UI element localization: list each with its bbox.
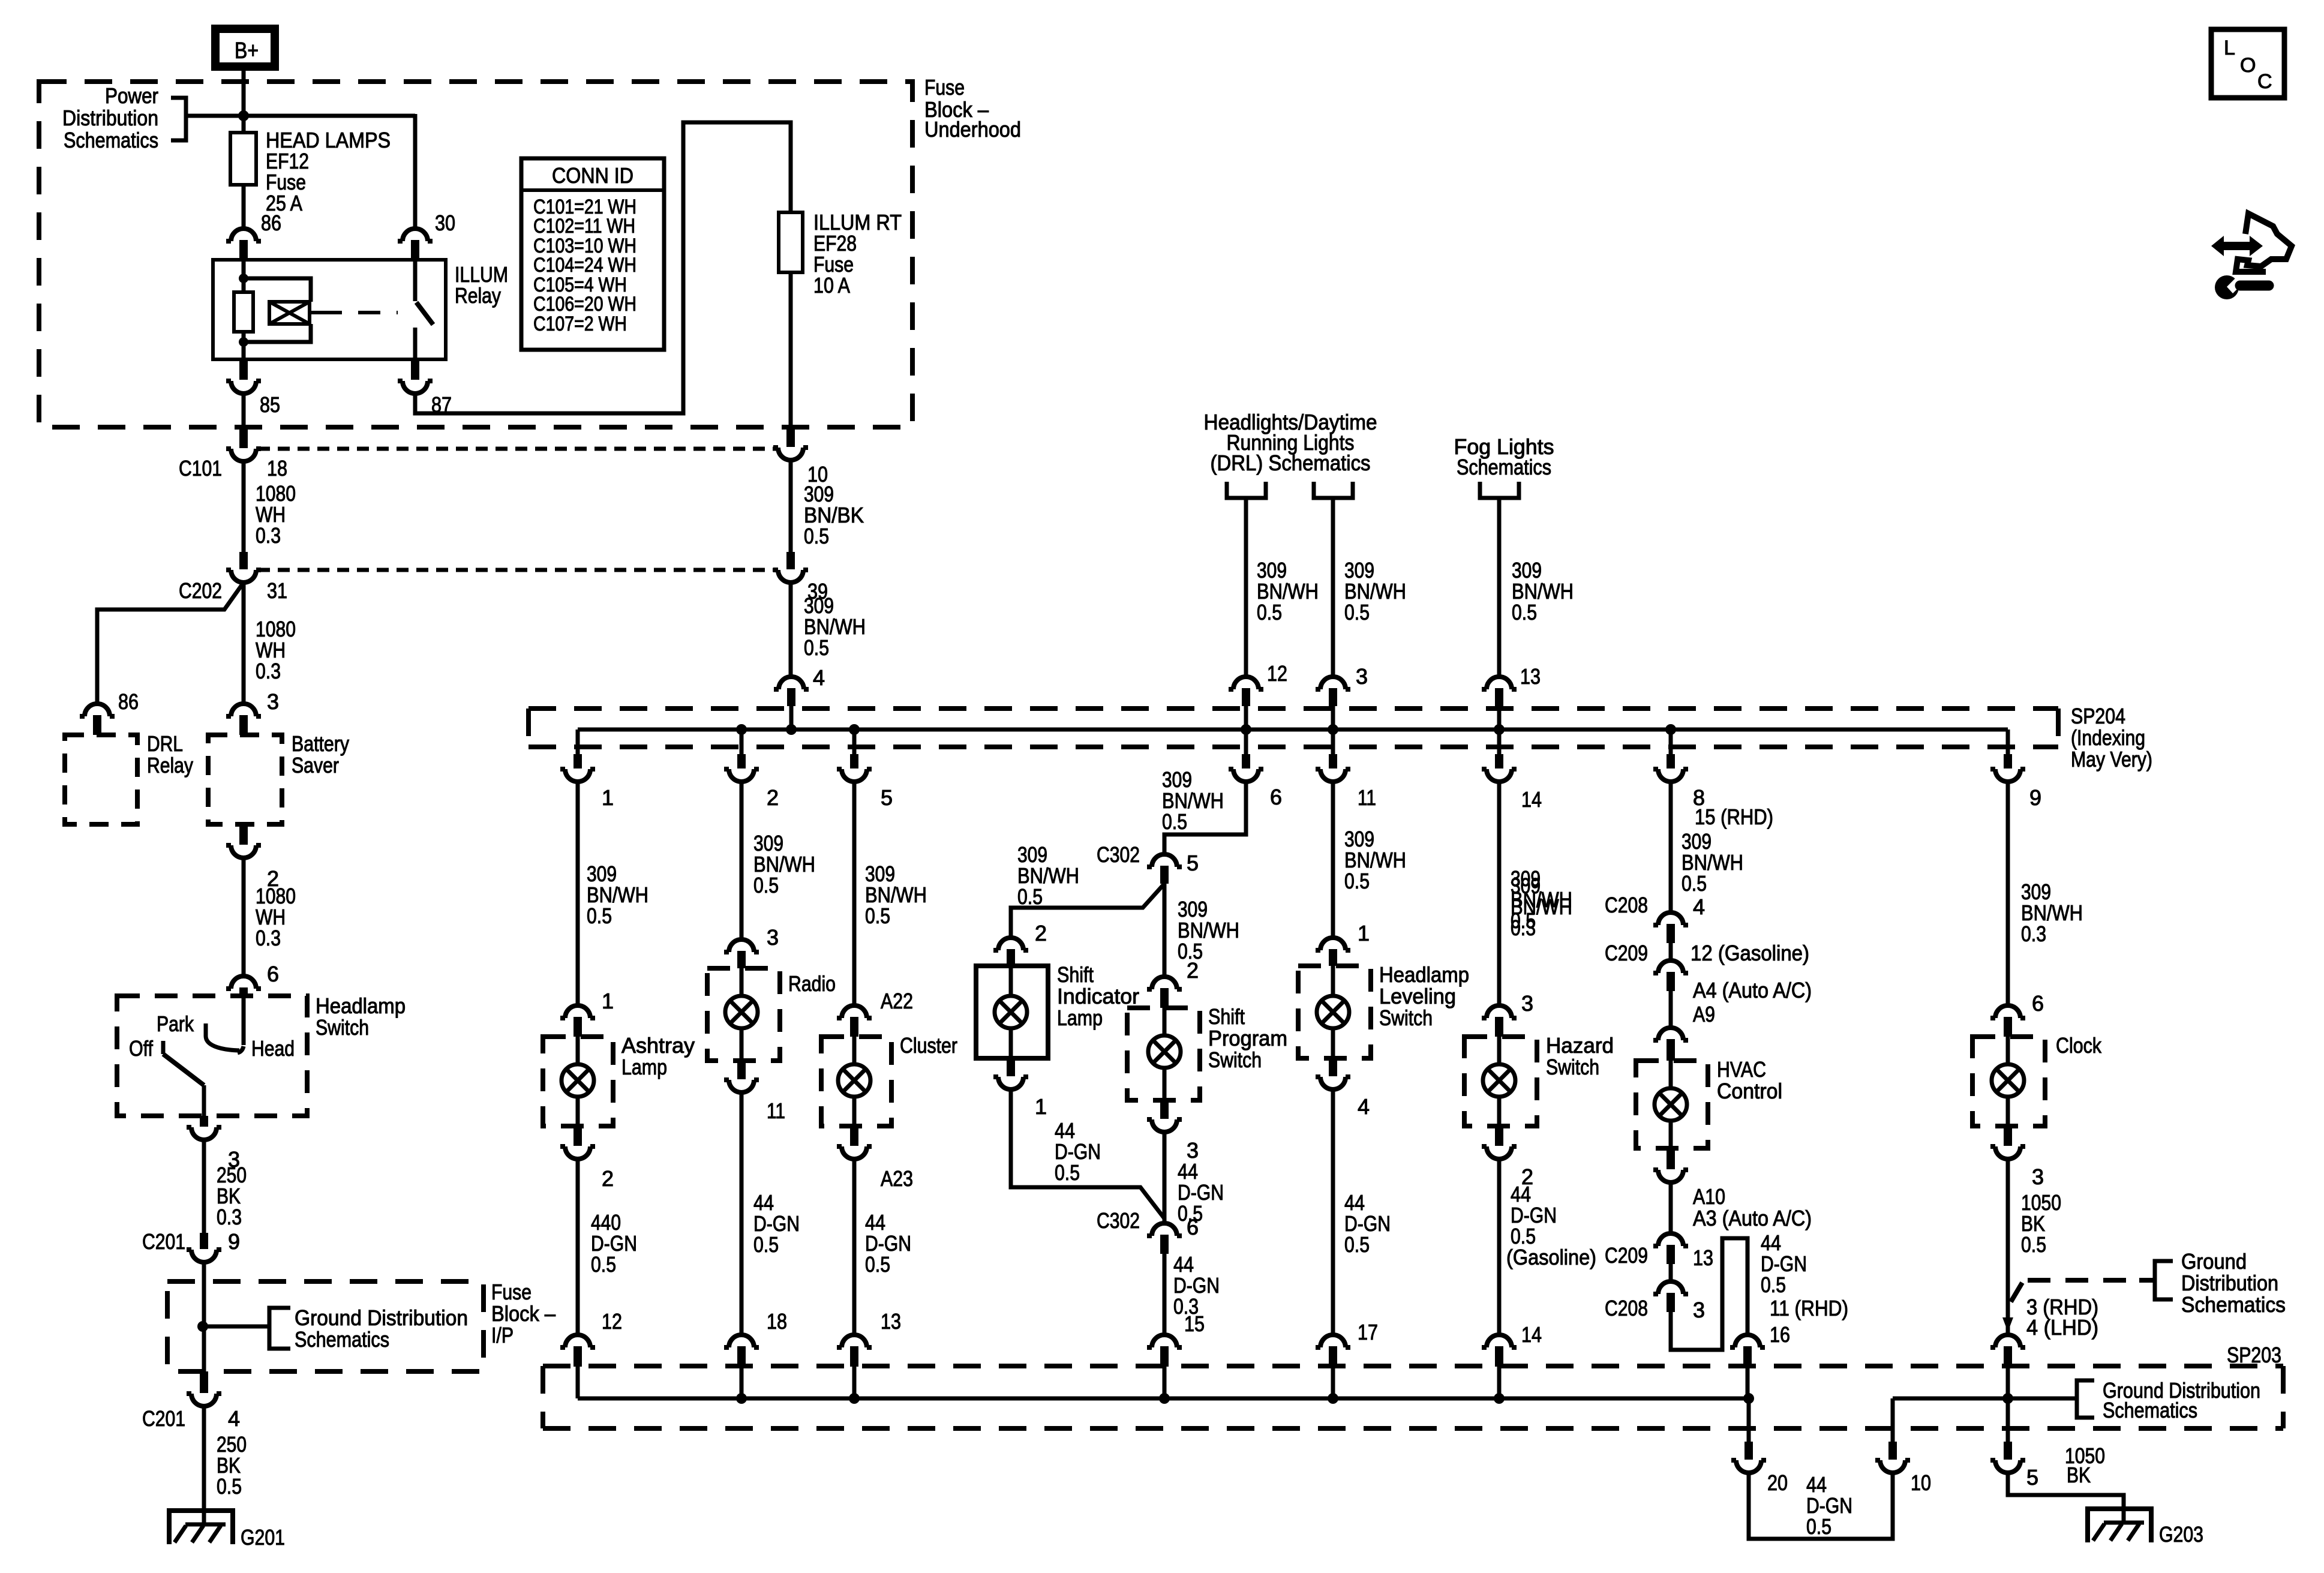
svg-text:C209: C209 (1605, 1243, 1648, 1268)
ashtray lamp pin 1 connector (560, 1005, 595, 1018)
Clock dashed box (1972, 1037, 2045, 1126)
lamp shift program switch (1163, 1008, 1167, 1035)
node SP203 junction (1494, 1393, 1505, 1404)
svg-text:Head: Head (251, 1036, 295, 1061)
svg-text:SP204: SP204 (2071, 704, 2125, 728)
B+ battery feed box (215, 29, 275, 67)
connector C302 pin 5 (1147, 854, 1182, 867)
splice feed 13 connector (1482, 677, 1517, 689)
svg-text:86: 86 (261, 211, 281, 235)
svg-text:0.5: 0.5 (1682, 871, 1707, 896)
headlamp switch pin 3 connector (200, 1116, 208, 1127)
SP203 splice dashed region (543, 1364, 2283, 1368)
svg-text:3: 3 (1356, 664, 1368, 689)
svg-text:4 (LHD): 4 (LHD) (2026, 1315, 2098, 1340)
svg-text:C101: C101 (179, 456, 222, 481)
svg-text:BK: BK (2067, 1463, 2091, 1487)
radio pin 3 connector (724, 939, 759, 952)
svg-text:0.3: 0.3 (256, 523, 281, 548)
shift program pin 3 connector (1160, 1100, 1169, 1119)
svg-text:L: L (2224, 37, 2235, 59)
svg-text:Distribution: Distribution (62, 106, 158, 130)
svg-text:3: 3 (2032, 1164, 2044, 1189)
svg-text:CONN ID: CONN ID (552, 163, 633, 188)
wire 309 BN/WH 0.5 (576, 782, 580, 1005)
icon double arrow (2211, 236, 2263, 256)
svg-text:0.5: 0.5 (1344, 1232, 1370, 1257)
SP204 drop 2 connector (740, 730, 744, 754)
wire 1050 BK 0.5 (2006, 1159, 2010, 1334)
lamp ashtray (576, 1037, 580, 1064)
connector 39 (C202) (786, 552, 795, 569)
svg-text:1: 1 (602, 989, 614, 1013)
SP203 entry 18 connector (724, 1335, 759, 1347)
svg-text:3: 3 (1521, 991, 1533, 1016)
lamp shift indicator (1009, 966, 1013, 996)
wire label 1080 WH 0.3 to headlamp switch (242, 858, 246, 975)
HVAC pin A10 connector (1667, 1148, 1675, 1169)
svg-text:Switch: Switch (1208, 1047, 1262, 1072)
connector C302 pin 6 (1147, 1223, 1182, 1236)
svg-text:0.3: 0.3 (217, 1205, 242, 1229)
svg-text:1: 1 (1035, 1094, 1047, 1119)
wire 44 D-GN 0.5 (852, 1159, 857, 1334)
svg-text:HVAC: HVAC (1717, 1057, 1766, 1082)
svg-text:0.5: 0.5 (1344, 869, 1370, 893)
wire 440 D-GN 0.5 (576, 1159, 580, 1334)
svg-text:12: 12 (602, 1309, 622, 1334)
svg-text:I/P: I/P (491, 1323, 514, 1347)
relay ILLUM Relay box U1 (213, 260, 446, 359)
wire 1050 BK to ground (2008, 1473, 2124, 1524)
wire through fuse block I/P (202, 1262, 206, 1371)
svg-text:15: 15 (1184, 1311, 1205, 1336)
svg-text:Off: Off (129, 1036, 154, 1061)
svg-text:C208: C208 (1605, 1296, 1648, 1320)
resistor inside relay (234, 292, 253, 332)
svg-text:12: 12 (1267, 661, 1287, 686)
wire 44 D-GN 0.5 (Gasoline) (1497, 1159, 1502, 1334)
svg-text:G203: G203 (2159, 1522, 2203, 1547)
svg-text:13: 13 (881, 1309, 901, 1334)
svg-text:Schematics: Schematics (2103, 1398, 2197, 1422)
SP203 entry connector (1990, 1335, 2025, 1347)
node ground distribution tap (197, 1321, 208, 1332)
svg-text:May Very): May Very) (2071, 747, 2152, 772)
shift indicator pin 1 connector (1007, 1058, 1015, 1076)
svg-text:9: 9 (228, 1229, 240, 1254)
dashed leader Ground Distribution Schematics (2011, 1283, 2022, 1302)
svg-text:Lamp: Lamp (621, 1055, 667, 1079)
svg-text:DRL: DRL (147, 731, 183, 756)
svg-text:Headlamp: Headlamp (316, 993, 406, 1018)
svg-text:0.5: 0.5 (217, 1474, 242, 1499)
svg-text:A23: A23 (881, 1166, 913, 1191)
wire 44 D-GN 0.5 loop (1749, 1473, 1893, 1539)
svg-text:17: 17 (1358, 1320, 1378, 1344)
connector C202 pin 31 (239, 552, 248, 569)
wire 309 BN/WH 0.5 (852, 782, 857, 1005)
bracket Ground Distribution Schematics (I/P) (203, 1325, 269, 1329)
svg-text:Program: Program (1208, 1026, 1287, 1050)
radio pin 11 connector (737, 1061, 746, 1079)
svg-text:C302: C302 (1097, 842, 1140, 867)
svg-text:11: 11 (767, 1098, 785, 1123)
wire 309 BN/WH 0.5 (1331, 782, 1335, 938)
drop 10 connector (1888, 1442, 1897, 1460)
svg-text:18: 18 (267, 456, 287, 481)
svg-text:C302: C302 (1097, 1208, 1140, 1233)
LOC reference box (2211, 29, 2284, 98)
node SP203 junction (849, 1393, 860, 1404)
HVAC Control dashed box (1636, 1061, 1708, 1148)
icon vehicle outline (2236, 214, 2292, 272)
wire label 309 BN/BK 0.5 (789, 460, 793, 552)
dotted connector line C202 (258, 568, 777, 572)
Fuse Block I/P dashed box (167, 1281, 484, 1371)
bracket Ground Distribution Schematics (SP203) (2077, 1380, 2094, 1418)
svg-text:A22: A22 (881, 989, 913, 1013)
SP204 drop 9 connector (2006, 730, 2010, 754)
svg-text:0.3: 0.3 (256, 926, 281, 950)
wire pin85 down (242, 394, 246, 428)
ashtray lamp pin 2 connector (574, 1126, 582, 1146)
svg-text:Battery: Battery (292, 731, 349, 756)
svg-text:5: 5 (1187, 851, 1199, 875)
svg-text:B+: B+ (235, 38, 259, 64)
svg-text:Control: Control (1717, 1079, 1782, 1103)
svg-text:2: 2 (1035, 921, 1047, 945)
node SP204 junction (786, 724, 797, 735)
hazard switch pin 3 connector (1482, 1005, 1517, 1018)
switch blade (163, 1054, 204, 1085)
Cluster dashed box (821, 1037, 891, 1126)
svg-text:6: 6 (2032, 991, 2044, 1016)
wire split to DRL relay (97, 583, 244, 702)
SP204 drop 14 connector (1497, 730, 1502, 754)
wire drop 6 jog to C302 (1164, 782, 1246, 854)
svg-text:18: 18 (767, 1309, 787, 1334)
svg-text:0.5: 0.5 (753, 873, 779, 897)
svg-text:6: 6 (267, 962, 279, 986)
relay switch contact (413, 260, 418, 301)
svg-text:12 (Gasoline): 12 (Gasoline) (1691, 941, 1809, 965)
svg-text:A4 (Auto A/C): A4 (Auto A/C) (1693, 978, 1812, 1002)
Headlamp Leveling Switch dashed box (1298, 966, 1371, 1058)
svg-text:Distribution: Distribution (2181, 1271, 2278, 1295)
wire 44 D-GN 0.5 jog to C302-6 (1011, 1089, 1164, 1218)
svg-text:20: 20 (1767, 1470, 1788, 1495)
svg-text:A3 (Auto A/C): A3 (Auto A/C) (1693, 1206, 1812, 1230)
svg-text:G201: G201 (241, 1525, 285, 1550)
shift program switch pin 2 connector (1147, 977, 1182, 989)
svg-text:13: 13 (1520, 664, 1541, 689)
svg-text:(Gasoline): (Gasoline) (1506, 1245, 1596, 1269)
splice feed 3 connector (1316, 677, 1350, 689)
svg-text:86: 86 (118, 689, 139, 714)
svg-text:0.5: 0.5 (865, 1252, 890, 1277)
splice feed 4 connector (774, 677, 809, 689)
svg-text:1: 1 (602, 785, 614, 810)
headlamp switch Head feed wire (242, 996, 246, 1045)
node SP204 junction (1494, 724, 1505, 735)
svg-text:Schematics: Schematics (295, 1327, 389, 1352)
coil to switch dashed link (310, 311, 320, 314)
svg-text:Indicator: Indicator (1057, 984, 1139, 1008)
svg-text:4: 4 (228, 1406, 240, 1431)
svg-text:C202: C202 (179, 578, 222, 603)
svg-text:6: 6 (1187, 1215, 1199, 1239)
svg-text:Schematics: Schematics (1457, 455, 1551, 479)
dotted connector line C101 (258, 447, 777, 451)
cluster pin A22 connector (837, 1005, 872, 1018)
SP203 entry 17 connector (1316, 1335, 1350, 1347)
svg-text:0.5: 0.5 (1162, 809, 1187, 834)
svg-text:0.5: 0.5 (587, 903, 612, 928)
pin 6 headlamp switch connector (226, 976, 261, 989)
relay coil solenoid symbol (269, 302, 310, 324)
pin 87 connector (411, 359, 419, 380)
wire split below C302-5 (1163, 884, 1167, 977)
lamp clock (2006, 1037, 2010, 1064)
svg-text:14: 14 (1521, 1322, 1542, 1347)
SP203 drop 5 connector (2006, 1398, 2010, 1442)
connector C208 pin 3 (1669, 1264, 1673, 1281)
wire to coil bottom (244, 324, 311, 342)
svg-text:0.5: 0.5 (1806, 1514, 1831, 1539)
svg-text:Switch: Switch (1546, 1055, 1599, 1079)
svg-text:14: 14 (1521, 787, 1542, 812)
svg-text:Hazard: Hazard (1546, 1033, 1614, 1058)
fuse EF12 HEAD LAMPS 25A (230, 133, 256, 185)
Headlamp Switch dashed box (117, 996, 307, 1116)
svg-text:2: 2 (767, 785, 779, 810)
svg-text:Lamp: Lamp (1057, 1005, 1103, 1030)
wire RHD jog to splice 16 (1671, 1238, 1747, 1350)
wire pin30 drop (413, 114, 418, 229)
SP203 drop 20 connector (1747, 1398, 1751, 1442)
wire label 309 BN/WH 0.5 (789, 583, 793, 677)
svg-text:C: C (2257, 70, 2272, 93)
svg-text:Underhood: Underhood (924, 117, 1021, 142)
CONN ID table (521, 158, 664, 350)
bus SP204 (578, 728, 2008, 732)
svg-text:O: O (2240, 54, 2256, 77)
svg-text:4: 4 (1358, 1094, 1370, 1119)
svg-text:10: 10 (1911, 1470, 1931, 1495)
icon wrench (2215, 275, 2239, 299)
leveling switch pin 4 connector (1329, 1058, 1337, 1076)
svg-text:3: 3 (1693, 1298, 1705, 1322)
off-page bracket (1314, 482, 1353, 498)
wire label 1080 WH 0.3 (242, 461, 246, 552)
svg-text:A9: A9 (1693, 1002, 1715, 1026)
svg-text:Shift: Shift (1208, 1004, 1245, 1029)
wire junction to pin30 drop (244, 114, 415, 118)
off-page bracket (1227, 482, 1266, 498)
SP204 drop 11 connector (1331, 730, 1335, 754)
node SP203 junction (2002, 1393, 2013, 1404)
svg-text:11: 11 (1358, 785, 1376, 810)
svg-text:A10: A10 (1693, 1184, 1725, 1209)
svg-text:Schematics: Schematics (2181, 1292, 2286, 1317)
lamp radio (740, 968, 744, 996)
svg-text:3: 3 (767, 925, 779, 950)
leveling switch pin 1 connector (1316, 938, 1350, 950)
node SP204 junction (1665, 724, 1676, 735)
svg-text:2: 2 (602, 1166, 614, 1191)
hazard switch pin 2 connector (1495, 1126, 1503, 1146)
wire resistor bottom (242, 332, 246, 359)
svg-text:0.5: 0.5 (591, 1252, 616, 1277)
connector C201 pin 4 (200, 1371, 208, 1393)
wire 309 BN/WH 0.5 (1669, 782, 1673, 911)
arrowhead RHD/LHD merge (2002, 1317, 2013, 1332)
relay coil branch wire (242, 260, 246, 292)
Hazard Switch dashed box (1464, 1037, 1537, 1126)
off-page bracket (1480, 482, 1519, 498)
node SP203 junction (736, 1393, 747, 1404)
svg-text:9: 9 (2029, 785, 2041, 810)
svg-text:11 (RHD): 11 (RHD) (1770, 1296, 1848, 1320)
node SP204 junction (1328, 724, 1338, 735)
svg-text:SP203: SP203 (2227, 1343, 2281, 1367)
node: B+ junction (238, 110, 249, 121)
bus SP203 left segment (578, 1397, 1750, 1401)
pin 86 DRL relay connector (80, 704, 115, 716)
svg-text:Switch: Switch (316, 1015, 369, 1040)
Battery Saver dashed box (208, 735, 282, 824)
svg-text:Cluster: Cluster (900, 1033, 957, 1058)
wire feed 3 to SP204 (1331, 498, 1335, 677)
Ashtray Lamp dashed box (543, 1037, 613, 1126)
SP203 entry 16 connector (1730, 1335, 1765, 1347)
ground G203 (2086, 1506, 2153, 1542)
svg-text:C201: C201 (142, 1406, 185, 1431)
wire fuse to pin 86 (242, 185, 246, 229)
svg-text:0.5: 0.5 (1512, 600, 1537, 625)
svg-text:Power: Power (105, 83, 158, 108)
svg-text:30: 30 (435, 211, 455, 235)
svg-text:5: 5 (2026, 1465, 2038, 1490)
node SP203 junction (1743, 1393, 1754, 1404)
svg-text:3: 3 (267, 689, 279, 714)
wire 44 D-GN 0.3 (1163, 1254, 1167, 1334)
svg-text:0.3: 0.3 (1511, 915, 1536, 940)
wire B+ down to fuse (242, 71, 246, 133)
SP203 entry 15 connector (1147, 1335, 1182, 1347)
svg-text:0.5: 0.5 (1055, 1160, 1080, 1185)
connector 10 (C101) (786, 427, 795, 447)
node SP204 junction (849, 724, 860, 735)
svg-text:13: 13 (1693, 1245, 1713, 1270)
svg-text:85: 85 (260, 392, 280, 417)
wire 309 BN/WH 0.3 (2006, 782, 2010, 1005)
svg-text:(DRL) Schematics: (DRL) Schematics (1211, 451, 1371, 475)
svg-text:0.5: 0.5 (2021, 1232, 2046, 1257)
SP203 entry 14 connector (1482, 1335, 1517, 1347)
wire EF28 fuse down (789, 272, 793, 428)
svg-text:0.5: 0.5 (804, 635, 829, 660)
svg-text:0.5: 0.5 (1344, 600, 1370, 625)
wire to C302 pin 6 (1163, 1132, 1167, 1223)
svg-text:4: 4 (1693, 894, 1705, 919)
svg-text:15 (RHD): 15 (RHD) (1695, 804, 1773, 829)
clock pin 3 connector (2004, 1126, 2012, 1146)
shift indicator lamp pin 2 connector (993, 938, 1028, 950)
svg-text:0.5: 0.5 (1257, 600, 1282, 625)
svg-text:Saver: Saver (292, 753, 339, 778)
SP204 drop 6 connector (1244, 730, 1248, 754)
SP204 drop 8 connector (1669, 730, 1673, 754)
SP203 entry 12 connector (560, 1335, 595, 1347)
lamp headlamp leveling (1331, 966, 1335, 996)
connector C209 pin 13 (1669, 1182, 1673, 1233)
svg-text:Radio: Radio (788, 971, 836, 996)
DRL Relay dashed box (65, 735, 137, 824)
wire to coil top (244, 278, 311, 302)
cluster pin A23 connector (850, 1126, 858, 1146)
svg-text:31: 31 (267, 578, 287, 603)
svg-text:0.5: 0.5 (1017, 884, 1043, 909)
wire 44 D-GN 0.5 (1331, 1089, 1335, 1334)
svg-text:C209: C209 (1605, 941, 1648, 965)
SP203 entry 13 connector (837, 1335, 872, 1347)
connector C101 pin 18 (239, 427, 248, 448)
svg-text:(Indexing: (Indexing (2071, 725, 2145, 750)
pin 3 battery saver connector (226, 704, 261, 716)
battery saver pin 2 connector (239, 824, 248, 845)
splice feed 12 connector (1229, 677, 1263, 689)
wire label 250 BK 0.3 (202, 1140, 206, 1233)
wire feed 13 to SP204 (1497, 498, 1502, 677)
SP204 splice dashed region (529, 706, 2058, 711)
wire 44 D-GN 0.5 (740, 1092, 744, 1334)
svg-text:4: 4 (813, 665, 825, 690)
svg-text:Relay: Relay (147, 753, 193, 778)
lamp HVAC (1669, 1061, 1673, 1088)
svg-text:Fuse: Fuse (924, 75, 965, 100)
svg-text:Shift: Shift (1057, 962, 1094, 987)
svg-text:Schematics: Schematics (64, 128, 158, 152)
svg-text:Leveling: Leveling (1379, 984, 1456, 1008)
switch wiper travel arc (206, 1036, 239, 1050)
wire label 250 BK 0.5 (202, 1406, 206, 1526)
svg-text:C201: C201 (142, 1229, 185, 1254)
clock pin 6 connector (1990, 1005, 2025, 1018)
svg-text:0.3: 0.3 (256, 659, 281, 683)
SP204 drop 5 connector (852, 730, 857, 754)
svg-text:0.5: 0.5 (865, 903, 890, 928)
wire pin87 to ILLUM RT fuse feed (415, 122, 791, 413)
node SP203 junction (1159, 1393, 1170, 1404)
svg-text:0.3: 0.3 (2021, 921, 2046, 946)
wire feed 12 to SP204 (1244, 498, 1248, 677)
Shift Program Switch dashed box (1127, 1008, 1200, 1100)
bracket: Power Distribution Schematics (171, 98, 186, 140)
SP204 drop 1 connector (576, 730, 580, 754)
svg-text:Relay: Relay (455, 283, 501, 308)
Shift Indicator Lamp solid box (976, 966, 1048, 1058)
switch common wire (202, 1085, 206, 1116)
wire 309 BN/WH 0.5 (740, 782, 744, 939)
svg-text:Switch: Switch (1379, 1005, 1433, 1030)
Fuse Block Underhood dashed box (39, 82, 912, 427)
svg-text:Park: Park (157, 1011, 194, 1036)
svg-text:1: 1 (1358, 921, 1370, 945)
connector C201 pin 9 (200, 1233, 208, 1249)
ground G201 (167, 1508, 235, 1544)
